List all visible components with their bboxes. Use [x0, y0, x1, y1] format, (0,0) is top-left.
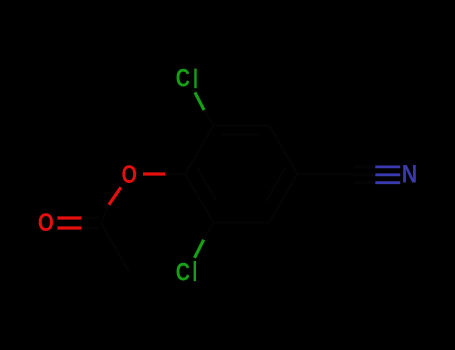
nitrile triple bond middle line, carbon half	[353, 173, 375, 176]
bond C2-Cl top, green half	[195, 92, 204, 110]
bond C2-Cl top, carbon half	[204, 110, 213, 125]
bond O-C(carbonyl), carbon half	[101, 205, 109, 223]
benzene ring C4-C5 bond	[269, 174, 297, 223]
svg-text:C: C	[176, 258, 190, 286]
svg-text:N: N	[402, 161, 418, 189]
svg-text:O: O	[122, 161, 138, 189]
bond O-C1, red half	[143, 172, 165, 175]
bond O-C(carbonyl), red half	[109, 187, 121, 205]
bond C(carbonyl)-CH3 methyl	[101, 223, 129, 272]
C=O double bond lower line, red half	[57, 226, 81, 229]
C=O double bond lower line, carbon half	[82, 227, 100, 230]
svg-text:O: O	[38, 209, 54, 237]
svg-text:C: C	[176, 64, 190, 92]
bond O-C1, carbon half	[165, 173, 185, 176]
benzene ring C2=C3 inner double bond line	[222, 133, 261, 136]
benzene ring C5-C6 bond	[213, 221, 269, 224]
bond C6-Cl bottom, carbon half	[204, 223, 214, 240]
bond C6-Cl bottom, green half	[195, 240, 204, 258]
benzene ring C6=C1 inner double bond line	[197, 168, 217, 202]
nitrile triple bond top line, carbon half	[353, 165, 375, 168]
C=O double bond upper line, carbon half	[82, 217, 100, 220]
bond C4-C(nitrile)	[297, 173, 353, 176]
benzene ring C1-C2 bond	[185, 126, 213, 175]
benzene ring C6-C1 bond	[185, 174, 213, 223]
benzene ring C2-C3 bond	[213, 124, 269, 127]
C=O double bond upper line, red half	[57, 216, 81, 219]
nitrile triple bond bottom line, carbon half	[353, 181, 375, 184]
nitrile triple bond middle line, nitrogen half	[375, 173, 400, 176]
nitrile triple bond top line, nitrogen half	[375, 165, 400, 168]
nitrile triple bond bottom line, nitrogen half	[375, 181, 400, 184]
benzene ring C4=C5 inner double bond line	[266, 168, 286, 202]
benzene ring C3-C4 bond	[269, 126, 297, 175]
